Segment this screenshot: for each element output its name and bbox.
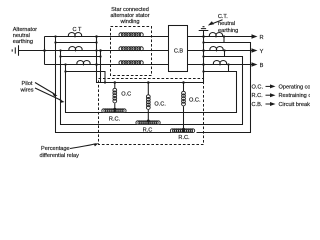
wire CT-R secondary	[56, 37, 97, 43]
node right CT secondary junctions	[202, 41, 204, 43]
svg-text:Percentage: Percentage	[41, 146, 70, 152]
op coil O.C.2	[147, 83, 149, 96]
arrowheads	[52, 21, 276, 146]
wire pilot left R down	[56, 43, 172, 133]
arrowhead Y	[252, 48, 258, 52]
percentage differential relay box (dashed)	[99, 79, 204, 145]
wire common Y drop	[100, 57, 102, 83]
wire pilot right B	[124, 72, 236, 113]
svg-text:neutral: neutral	[218, 21, 235, 27]
node relay bus taps for operating coils	[114, 81, 117, 84]
svg-text:C.T.: C.T.	[218, 14, 228, 20]
wire phase R right	[188, 36, 253, 38]
arrow C.T. label pointer	[211, 20, 223, 25]
arrowhead B	[252, 62, 258, 66]
node CT neutral bus junctions	[202, 35, 205, 38]
wire phase B left	[45, 64, 169, 66]
CT left R	[68, 32, 81, 36]
svg-text:Circuit breaker: Circuit breaker	[279, 102, 311, 108]
winding B	[119, 61, 143, 65]
wire CT-R right riser	[223, 37, 225, 43]
svg-text:wires: wires	[19, 88, 33, 94]
wire pilot right R	[197, 43, 251, 133]
svg-text:Operating coil: Operating coil	[279, 84, 311, 90]
arrowhead C.T. pointer	[208, 21, 214, 25]
wire phase Y left	[45, 50, 169, 52]
svg-text:O.C.: O.C.	[154, 102, 166, 108]
svg-text:earthing: earthing	[13, 39, 33, 45]
arrowhead pilot 1	[52, 92, 58, 96]
winding Y	[119, 47, 143, 51]
arrowhead R	[252, 34, 258, 38]
stator winding box (dashed)	[111, 27, 152, 76]
node right CT taps on phase lines	[223, 35, 225, 37]
svg-text:O.C: O.C	[121, 92, 131, 98]
svg-text:differential relay: differential relay	[40, 153, 80, 159]
arrowhead legend R.C.	[270, 93, 276, 97]
node left CT taps on phase lines	[54, 35, 56, 37]
arrow pilot-wires pointer 2	[35, 88, 62, 101]
wire CT-Y secondary	[61, 51, 101, 57]
svg-text:C.B: C.B	[174, 48, 184, 54]
op coil O.C.1	[114, 83, 116, 89]
CT left Y	[69, 46, 82, 50]
svg-text:R.C.: R.C.	[252, 93, 264, 99]
wire pilot left B down	[66, 72, 103, 113]
wire CT-B right riser	[228, 65, 230, 72]
op coil O.C.3	[183, 83, 185, 92]
arrowhead pilot 2	[59, 99, 65, 103]
node left CT secondary tee junctions	[54, 41, 56, 43]
svg-text:R.C.: R.C.	[178, 135, 190, 141]
node left common return junctions	[95, 35, 98, 38]
wire phase R left	[45, 36, 169, 38]
circuit breaker C.B. box	[169, 26, 188, 72]
CT left B	[77, 60, 90, 64]
wire pilot right Y	[159, 57, 242, 125]
wire neutral earthing lead	[19, 50, 45, 52]
node neutral junction	[43, 49, 46, 52]
wire phase B right	[188, 64, 253, 66]
svg-text:Y: Y	[260, 49, 264, 55]
svg-text:C T: C T	[73, 27, 82, 33]
CT right Y	[210, 46, 223, 50]
restraining coil R.C.1	[102, 109, 126, 113]
ground (alternator neutral earth)	[12, 45, 18, 56]
wire neutral bus	[44, 37, 46, 65]
svg-text:earthing: earthing	[218, 28, 238, 34]
wire CT-Y right riser	[224, 51, 226, 57]
arrowhead legend C.B.	[270, 102, 276, 106]
restraining coil R.C.2	[136, 121, 160, 125]
restraining coil R.C.3	[170, 129, 194, 133]
CT right R	[209, 32, 222, 36]
svg-text:Pilot: Pilot	[22, 81, 33, 87]
node left B-phase return junction	[104, 81, 106, 83]
winding R	[119, 33, 143, 37]
svg-text:C.B.: C.B.	[252, 102, 263, 108]
ground (CT neutral earth)	[199, 27, 209, 31]
node left Y-phase return junctions	[99, 49, 102, 52]
arrowhead legend O.C.	[270, 84, 276, 88]
wire relay common bus	[97, 31, 204, 83]
svg-text:R.C.: R.C.	[109, 117, 121, 123]
wire CT-B secondary	[66, 65, 106, 83]
CT right B	[213, 60, 226, 64]
wire phase Y right	[188, 50, 253, 52]
arrowhead percentage pointer	[94, 143, 99, 146]
wire pilot left Y down	[61, 57, 137, 125]
svg-text:R: R	[259, 35, 263, 41]
svg-text:Restraining coil: Restraining coil	[279, 93, 311, 99]
arrow legend shafts	[266, 85, 272, 87]
arrow percentage relay pointer	[70, 144, 96, 149]
node operating coil to restraining coil junctions	[113, 108, 116, 111]
svg-text:O.C.: O.C.	[189, 97, 201, 103]
svg-text:B: B	[260, 63, 264, 69]
svg-text:O.C.: O.C.	[252, 84, 264, 90]
svg-text:R.C: R.C	[143, 127, 153, 133]
svg-text:winding: winding	[120, 19, 140, 25]
arrow pilot-wires pointer 1	[35, 83, 55, 95]
